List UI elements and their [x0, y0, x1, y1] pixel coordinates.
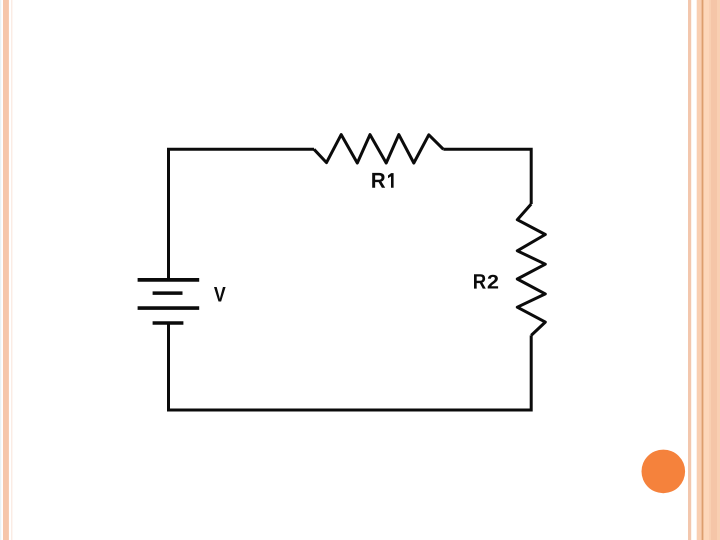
- decorative theme borders (unlabelled): [0, 0, 1, 540]
- battery plate short: [153, 291, 183, 295]
- battery V: [138, 280, 200, 323]
- battery plate long: [138, 306, 200, 310]
- battery plate long top: [138, 278, 200, 282]
- resistor R1: [314, 135, 443, 163]
- resistor R2: [517, 204, 545, 335]
- battery plate short bottom: [153, 321, 184, 325]
- label R2: [474, 274, 498, 288]
- wire: R1 to top-right corner down to R2: [443, 149, 531, 204]
- wire: battery + terminal up and top rail to R1: [169, 149, 315, 278]
- wire: R2 down to bottom-right corner and bottom rail: [167, 335, 531, 410]
- label R1: [372, 173, 393, 188]
- label V: [214, 287, 226, 302]
- wire: bottom rail up to battery - terminal: [167, 323, 170, 412]
